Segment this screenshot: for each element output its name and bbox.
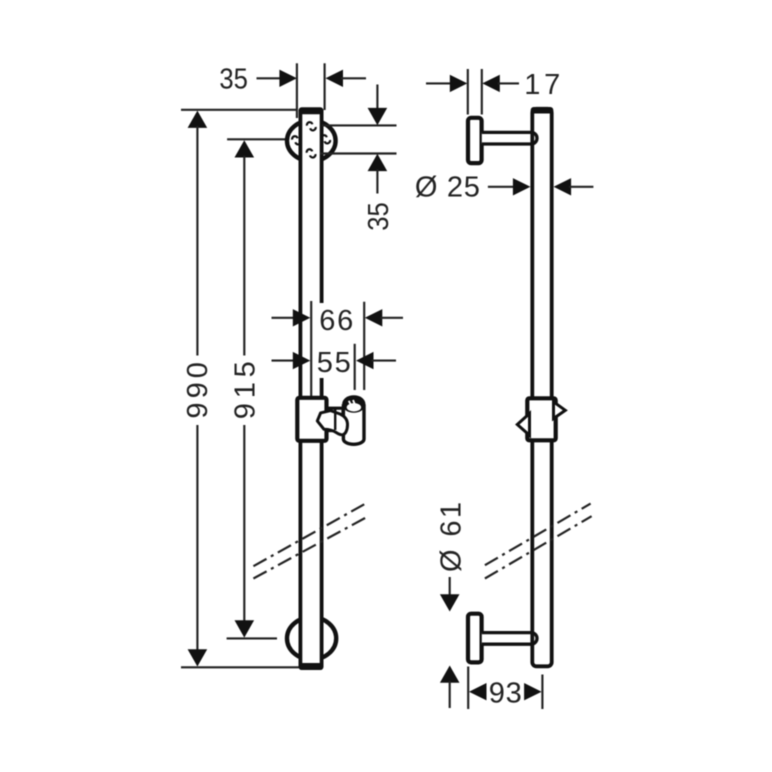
clamp lever left (side) bbox=[517, 414, 529, 436]
wire: bar right edge upper segment bbox=[320, 110, 324, 303]
svg-text:Ø 25: Ø 25 bbox=[415, 172, 480, 204]
slider body (front) bbox=[297, 398, 326, 441]
svg-text:990: 990 bbox=[182, 362, 214, 419]
break lines left bar bbox=[253, 504, 364, 566]
dimension 915 bbox=[235, 140, 255, 157]
dimension 66 bbox=[272, 317, 295, 319]
clamp cone lever bbox=[317, 411, 347, 435]
wire: extension line 55 right bbox=[354, 344, 356, 390]
bar (side view) outline bbox=[532, 109, 551, 667]
svg-text:35: 35 bbox=[219, 64, 248, 96]
break lines right bar bbox=[485, 504, 591, 566]
wire: extension line 66 right bbox=[363, 302, 365, 390]
bar top cap bbox=[299, 107, 324, 114]
handle neck bbox=[327, 408, 344, 430]
clamp lever right (side) bbox=[554, 402, 566, 419]
wire: 35 top right extension bbox=[324, 63, 326, 110]
wire: neck divider bbox=[334, 409, 336, 430]
bottom mount circle bbox=[287, 617, 336, 659]
svg-text:93: 93 bbox=[489, 677, 522, 709]
wire: 35 top left extension bbox=[296, 63, 298, 118]
dimension 35 (vertical right of circle) bbox=[322, 124, 397, 126]
dimension 990 bbox=[188, 111, 208, 128]
screw arc detail left bbox=[292, 136, 297, 139]
dimension 55 bbox=[272, 360, 295, 362]
top wall plate bbox=[468, 118, 482, 163]
wire: extension line bar centre (66/55) bbox=[310, 301, 312, 396]
top mount circle bbox=[287, 121, 336, 162]
bar (front view) body bbox=[299, 109, 323, 668]
screw arc detail top bbox=[307, 122, 312, 125]
wire: bar right edge lower segment bbox=[320, 378, 324, 666]
wire: 990 top extension line bbox=[181, 109, 296, 111]
bar bottom cap bbox=[299, 663, 324, 670]
top arm bbox=[482, 132, 537, 144]
wire: 915 bottom extension line bbox=[227, 637, 277, 639]
wire: 990 bottom extension line bbox=[181, 666, 299, 668]
dimension 17 bbox=[467, 69, 469, 115]
screw arc detail right bbox=[321, 135, 326, 138]
handle cylinder bbox=[343, 406, 364, 444]
svg-text:35: 35 bbox=[363, 202, 395, 231]
bar top cap (side) bbox=[531, 107, 554, 114]
dimension 93 bbox=[467, 667, 469, 710]
svg-text:66: 66 bbox=[319, 305, 353, 337]
bar (side view) fill bbox=[531, 107, 554, 668]
svg-text:915: 915 bbox=[230, 361, 262, 419]
bottom wall plate bbox=[468, 614, 482, 663]
handle knob top (dark) bbox=[342, 395, 365, 413]
screw arc detail bottom bbox=[307, 149, 312, 152]
svg-text:Ø 61: Ø 61 bbox=[435, 502, 467, 572]
svg-text:55: 55 bbox=[317, 347, 351, 379]
wire: bar left edge bbox=[298, 110, 302, 666]
bottom arm bbox=[482, 633, 537, 645]
slider (side view) bbox=[527, 398, 555, 440]
wire: 915 top extension line bbox=[227, 138, 285, 140]
